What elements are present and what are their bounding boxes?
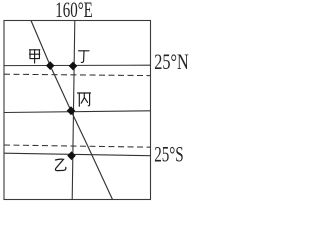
latitude line 25S solid [4, 153, 151, 156]
svg-text:25°S: 25°S [154, 141, 184, 166]
node yi dot [67, 151, 76, 160]
slanted route line [31, 21, 113, 200]
character ding [79, 51, 90, 63]
meridian 160E vertical line [72, 21, 75, 200]
svg-text:25°N: 25°N [154, 49, 189, 74]
latitude line 25N solid [4, 64, 151, 66]
node jia dot [46, 61, 55, 70]
node ding dot [69, 62, 78, 71]
character bing [78, 93, 91, 106]
character jia [30, 50, 40, 63]
tropic of capricorn dashed line [4, 145, 151, 147]
map frame border [4, 21, 151, 200]
character yi [55, 159, 65, 170]
equator solid line [4, 111, 151, 113]
tropic of cancer dashed line [4, 74, 151, 75]
node bing dot [67, 106, 76, 115]
svg-text:160°E: 160°E [55, 0, 93, 22]
